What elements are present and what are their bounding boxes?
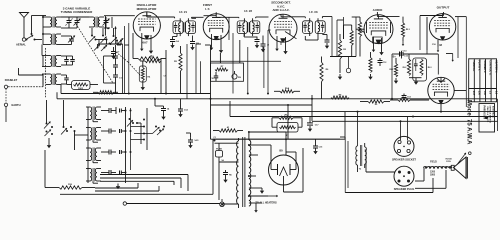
wire primary bottom: [222, 203, 239, 205]
label field coil: [430, 162, 437, 164]
svg-text:SPEAKER SOCKET: SPEAKER SOCKET: [392, 158, 416, 162]
transformer T5 output: [356, 145, 367, 171]
label audio: [373, 8, 383, 12]
wire doublet dashes: [5, 89, 7, 122]
wire speaker right arrow: [458, 152, 472, 164]
capacitor C16: [178, 107, 189, 118]
wire bus D: [250, 111, 498, 113]
capacitor C10: [322, 35, 329, 49]
capacitor C4: [113, 75, 123, 94]
svg-text:6A7: 6A7: [472, 91, 475, 96]
label 3 gang variable tuning condenser: [61, 6, 93, 14]
wire field leads: [415, 168, 424, 181]
logo PARAGON box: [479, 104, 495, 133]
wire coil bank interconnect: [42, 45, 46, 99]
svg-text:EARTH: EARTH: [12, 103, 21, 107]
svg-text:HEATER V.: HEATER V.: [494, 60, 497, 73]
wire socket feeds: [401, 117, 408, 141]
capacitor C24: [101, 150, 126, 155]
wire osc coil leads: [104, 16, 135, 36]
wire aerial to coil top: [32, 16, 47, 35]
label oscillator modulator: [137, 3, 158, 11]
svg-text:TUNING CONDENSER: TUNING CONDENSER: [61, 10, 93, 14]
box R17: [277, 123, 298, 137]
svg-text:R5A: R5A: [285, 87, 290, 90]
svg-text:r1A: r1A: [175, 40, 179, 43]
wire audio couple: [344, 25, 352, 39]
wire long vertical 2: [287, 105, 289, 139]
svg-text:AUDIO: AUDIO: [373, 8, 383, 12]
wire band bus: [75, 107, 89, 183]
avc dashed line: [116, 52, 140, 75]
capacitor C23: [101, 129, 126, 134]
wire tuning top: [61, 17, 89, 28]
svg-text:MODULATOR: MODULATOR: [137, 7, 158, 11]
svg-text:1800: 1800: [430, 174, 436, 176]
capacitor C12 coupling: [392, 51, 438, 57]
oscillator coil L5: [89, 17, 104, 28]
label IF1: [179, 10, 188, 14]
wire U3 legs: [277, 36, 286, 49]
capacitor C19: [402, 94, 412, 101]
label field ohms: [430, 171, 436, 176]
wire T4 sec leads: [248, 144, 268, 203]
resistor R22: [369, 52, 372, 73]
wire U5 plate: [420, 12, 444, 50]
wire U3 left leg: [211, 30, 282, 94]
wire bus E: [230, 101, 498, 118]
svg-text:PLATE V.: PLATE V.: [478, 60, 481, 71]
wire caps column: [98, 40, 123, 94]
resistor R24 line: [213, 126, 243, 132]
resistor R13: [164, 46, 183, 94]
svg-text:OUTPUT: OUTPUT: [437, 6, 450, 10]
ground R7 arrow: [402, 37, 405, 46]
label speaker socket: [392, 146, 416, 162]
field coil FC: [424, 167, 452, 169]
wire caps feed: [155, 99, 191, 138]
switch S3 power: [220, 202, 225, 207]
capacitor C27: [313, 139, 323, 154]
pot R15: [232, 71, 242, 79]
wire aerial to coil: [35, 39, 43, 41]
tube U6 output2: [428, 77, 454, 103]
resistor R6 volume: [352, 17, 365, 57]
label speaker plug: [394, 175, 414, 191]
switch S1c: [111, 35, 124, 44]
svg-text:1200: 1200: [430, 171, 436, 173]
antenna coil L4: [46, 74, 61, 86]
IF transformer T3 box B: [315, 18, 325, 36]
transformer T4 primary: [237, 138, 239, 208]
transformer T4 core: [243, 137, 245, 207]
svg-text:AUSTRALIA: AUSTRALIA: [492, 106, 495, 118]
resistor R2 pad: [93, 91, 118, 94]
wire stair 1: [95, 183, 138, 188]
wire S2c verts: [131, 108, 153, 150]
svg-text:100: 100: [483, 91, 486, 96]
wire bus A: [61, 85, 211, 95]
switch S2 band c: [127, 118, 145, 141]
wire stair 3: [60, 139, 213, 194]
label 80: [279, 149, 283, 153]
svg-text:TO ALL HEATERS: TO ALL HEATERS: [255, 202, 277, 205]
wire S2 wires: [47, 100, 75, 150]
wire speaker bottom2: [415, 170, 446, 188]
tube U2 6D6: [203, 14, 229, 40]
wire T2 top leads: [239, 17, 269, 18]
ground U4 a: [372, 48, 376, 53]
wire T3 bottoms: [305, 36, 318, 40]
label 48: [439, 43, 442, 47]
resistor R23 bleed: [45, 184, 95, 189]
wire rect out: [284, 148, 304, 192]
ground U4 b: [379, 50, 383, 56]
wire switch up: [221, 199, 223, 202]
capacitor C14 tone: [210, 72, 218, 81]
wire T3 tops: [305, 17, 332, 19]
wire det out verticals: [332, 17, 344, 57]
ground U2 a: [210, 46, 214, 51]
capacitor C3: [113, 45, 118, 75]
ground R22: [368, 74, 372, 80]
svg-text:6A7: 6A7: [142, 40, 148, 44]
capacitor C11: [426, 17, 428, 50]
svg-text:AND 1st A.F.: AND 1st A.F.: [272, 8, 289, 12]
transformer T4 secondary: [249, 137, 251, 206]
wire U2 plate: [216, 17, 239, 93]
wire U2 legs: [196, 34, 221, 94]
label 6A7: [142, 40, 148, 44]
svg-text:I. F.: I. F.: [205, 7, 210, 11]
wire T1 bottoms: [173, 34, 193, 39]
capacitor C26: [223, 170, 233, 183]
wire stair 2: [95, 186, 159, 191]
wire bus F: [312, 99, 498, 131]
switch S2 band b: [61, 126, 76, 135]
wire R16 R17 join: [272, 118, 302, 127]
svg-text:C10: C10: [210, 78, 213, 80]
box U4 bias: [373, 37, 383, 43]
ground osc bank: [116, 184, 120, 190]
capacitor C22: [101, 107, 126, 114]
label 6D6: [214, 37, 220, 41]
ground R12: [141, 81, 145, 91]
wire U4 legs: [374, 37, 382, 50]
wire U5 right: [455, 17, 466, 107]
capacitor C8B: [190, 39, 199, 51]
antenna coil L2: [46, 34, 61, 46]
label OUTPUT: [437, 6, 450, 10]
ground U1 cathode: [140, 47, 144, 52]
svg-text:250: 250: [478, 91, 481, 96]
switch S2 band d: [153, 126, 166, 136]
variable capacitor C1b: [61, 36, 75, 45]
resistor R19: [360, 100, 390, 106]
wire U6 top: [427, 17, 466, 112]
wire U2 grid top: [204, 12, 217, 16]
table voltages: [469, 59, 498, 102]
svg-text:SERVICE SHEETS: SERVICE SHEETS: [489, 106, 491, 124]
wire long vertical 1: [205, 45, 211, 139]
ground R25: [394, 78, 398, 84]
ground RL: [414, 79, 418, 85]
wire T4 top lead: [248, 131, 286, 137]
ground U3 a: [275, 47, 279, 52]
capacitor C6 units: [61, 75, 69, 84]
wire S1c: [114, 28, 122, 45]
wire T2 bottoms: [244, 34, 263, 39]
resistor R1 5000 box: [72, 81, 91, 91]
wire long vertical 3: [311, 95, 313, 121]
osc coil L9: [86, 168, 101, 183]
wire AC line: [127, 203, 220, 205]
label IF2: [244, 9, 253, 13]
wire 5000 leads: [67, 84, 99, 86]
resistor R14 tone: [215, 66, 228, 71]
wire U4 plate: [377, 12, 399, 17]
capacitor C21: [399, 51, 409, 59]
switch S2 band a: [44, 122, 53, 137]
osc coil L7: [86, 127, 101, 142]
capacitor C9A: [255, 37, 260, 49]
resistor R16 filter: [272, 115, 302, 120]
svg-text:80: 80: [279, 149, 283, 153]
label second det: [271, 1, 291, 12]
wire rect top: [213, 138, 340, 140]
antenna: [20, 13, 29, 38]
wire U4 grid left: [330, 17, 365, 57]
ground U3 b: [283, 49, 287, 55]
gang line dashed: [76, 24, 113, 83]
antenna coil L3: [46, 55, 61, 67]
wire U6 screen gnd: [446, 54, 454, 62]
wire osc bank right bus: [125, 107, 127, 183]
resistor R3 osc: [138, 55, 161, 60]
wire rect plate feed: [256, 132, 296, 170]
wire U3 plate: [281, 14, 305, 16]
resistor R16a: [274, 87, 300, 93]
wire bus G: [211, 112, 346, 140]
switch S1a aerial: [26, 33, 36, 41]
label IF3: [309, 10, 318, 14]
osc coil L8: [86, 148, 101, 163]
capacitor C20: [378, 58, 388, 66]
svg-text:SCREEN V.: SCREEN V.: [483, 60, 486, 73]
label model 75: [465, 100, 471, 145]
capacitor C2a trimmer: [74, 17, 81, 28]
resistor R11: [140, 57, 161, 63]
svg-text:I.F. #2: I.F. #2: [244, 9, 253, 13]
terminal AERIAL: [16, 38, 26, 47]
label FIRST IF: [203, 3, 212, 11]
ground T4 a: [260, 188, 264, 194]
capacitor C18 elec: [307, 117, 319, 132]
svg-text:CONTROL G.: CONTROL G.: [489, 60, 492, 75]
wire T1 top leads: [175, 17, 204, 18]
variable capacitor C1a: [66, 17, 73, 28]
wire primary top: [219, 161, 239, 163]
IF transformer T2: [237, 18, 260, 36]
wire doublet right: [8, 68, 43, 87]
wire speaker bottom: [345, 178, 433, 193]
IF transformer T3 box A: [303, 18, 313, 36]
wire U1 legs: [142, 33, 151, 48]
tube U1 6A7: [133, 12, 160, 39]
resistor R20: [320, 57, 329, 99]
svg-text:I.F. #1: I.F. #1: [179, 10, 188, 14]
switch S1b contacts: [89, 35, 111, 52]
wire switch verticals: [92, 28, 107, 48]
terminal AC: [123, 202, 126, 205]
svg-text:RADIO & TELEV.: RADIO & TELEV.: [486, 107, 489, 123]
label to all heaters: [255, 195, 278, 205]
svg-text:FIELD: FIELD: [430, 162, 437, 164]
svg-text:AERIAL: AERIAL: [16, 42, 26, 46]
wire plug leads: [365, 150, 395, 172]
wire U1 plate top: [147, 12, 175, 17]
resistor R21: [338, 34, 346, 73]
svg-text:5000: 5000: [78, 88, 84, 90]
wire RL bottom: [409, 78, 422, 79]
capacitor C17: [188, 137, 199, 148]
wire bias bus: [392, 54, 396, 99]
wire speaker loop left: [340, 137, 348, 193]
capacitor C25: [101, 170, 126, 175]
ground S2: [47, 138, 51, 148]
wire coil bank left bus: [42, 16, 46, 85]
wire bus C: [211, 104, 313, 106]
svg-text:TUBE No.: TUBE No.: [472, 60, 475, 71]
wire T5 leads: [357, 111, 365, 172]
capacitor C9B: [261, 38, 270, 52]
terminal EARTH: [4, 103, 20, 107]
plug P1 speaker: [394, 166, 414, 186]
wire osc bank bus 2: [130, 108, 132, 170]
wire bleed left: [44, 150, 46, 188]
wire U1 left wires: [116, 23, 162, 94]
resistor R7 plate load: [401, 17, 410, 38]
tube U7 80: [269, 155, 299, 185]
svg-text:DOUBLET: DOUBLET: [5, 78, 18, 82]
wire nested corners: [100, 175, 188, 192]
speaker LS1 cone: [451, 157, 467, 179]
fuse F1: [213, 137, 224, 162]
capacitor C5 units: [61, 56, 75, 65]
label voice coil: [445, 159, 452, 164]
ground U2 b: [219, 48, 223, 54]
svg-text:6D6: 6D6: [214, 37, 220, 41]
wire fuse drop: [215, 143, 239, 200]
ground R21: [338, 74, 342, 80]
terminal DOUBLET: [4, 78, 17, 88]
tube U3 6B7: [269, 14, 297, 42]
resistor R10 RL6: [390, 97, 429, 102]
capacitor C15: [161, 106, 170, 120]
osc coil L6: [86, 107, 101, 122]
tube U4 audio: [364, 15, 393, 44]
wire mid vertical 4: [161, 44, 201, 99]
resistor R18: [331, 94, 349, 99]
antenna coil L1: [46, 17, 61, 28]
resistor R5: [346, 25, 353, 73]
svg-text:SPEAKER PLUG: SPEAKER PLUG: [394, 187, 414, 191]
ground U1 supr: [149, 48, 153, 54]
resistor R12 avc: [139, 61, 151, 82]
ground heater: [254, 203, 258, 213]
resistor R25: [390, 58, 398, 77]
svg-text:Model 75 A.W.A: Model 75 A.W.A: [465, 100, 471, 145]
capacitor C8A: [170, 37, 179, 49]
wire U5 cath: [432, 40, 439, 52]
svg-text:COIL: COIL: [446, 161, 452, 163]
wire bus B: [57, 92, 497, 100]
tube U5 output: [429, 14, 455, 40]
capacitor C7 osc grid: [111, 47, 120, 59]
resistor R8 RL2: [403, 54, 411, 76]
IF transformer T1: [173, 18, 196, 36]
resistor R9 RL3: [413, 58, 433, 81]
svg-text:I.F. #3: I.F. #3: [309, 10, 318, 14]
box mid tone: [211, 40, 244, 81]
socket J1 speaker: [394, 136, 414, 156]
variable capacitor C1c: [103, 17, 110, 28]
